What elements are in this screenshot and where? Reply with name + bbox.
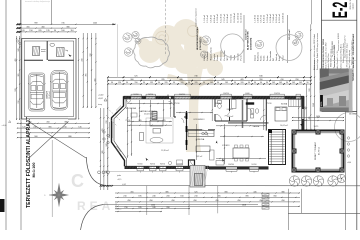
bay windows (116, 106, 121, 111)
svg-text:345 120 90: 345 120 90 (349, 114, 357, 116)
stairs corner mark (269, 130, 272, 133)
svg-text:4. 8.6 m2: 4. 8.6 m2 (214, 15, 216, 23)
black wardrobe bar (246, 102, 254, 104)
svg-text:120: 120 (22, 126, 25, 128)
kitchen counter (188, 131, 214, 137)
plot line right top (310, 0, 312, 24)
svg-text:(OSSZESEN): (OSSZESEN) (250, 37, 252, 50)
svg-text:390: 390 (245, 196, 248, 198)
door swing arcs (178, 117, 184, 123)
top dim extra labels (111, 82, 309, 84)
interior wall hall-living (173, 99, 175, 117)
between garage and house dim chains (82, 33, 84, 108)
svg-text:240: 240 (106, 144, 108, 147)
terrace right ticks (347, 137, 349, 139)
svg-text:Lepcso: Lepcso (254, 55, 256, 61)
svg-text:tervezett utcakep helyszinrajz: tervezett utcakep helyszinrajz (25, 0, 50, 3)
interior wall x247 (246, 99, 248, 121)
svg-text:-0,02: -0,02 (122, 184, 126, 186)
svg-text:rajzszam: rajzszam (353, 2, 355, 9)
bottom wall step (189, 160, 195, 166)
corner circles garage (16, 40, 18, 42)
covered terrace (293, 131, 344, 172)
street top edge (105, 185, 360, 187)
svg-text:120: 120 (21, 30, 24, 32)
svg-text:200: 200 (166, 196, 169, 198)
svg-text:7. 14.3 m2: 7. 14.3 m2 (273, 14, 275, 23)
interior wall y129 right rooms (228, 122, 269, 124)
house top connector (117, 24, 119, 77)
svg-text:110: 110 (70, 30, 73, 32)
svg-text:6. 12.0 m2: 6. 12.0 m2 (221, 14, 223, 23)
schedule 1 divider (243, 15, 245, 63)
driveway diagonal 1 (29, 122, 87, 159)
svg-text:KOZLEKEDO: KOZLEKEDO (194, 119, 206, 121)
svg-text:90: 90 (234, 82, 236, 84)
svg-text:2019. 05. 10.: 2019. 05. 10. (350, 0, 352, 10)
svg-text:365: 365 (86, 74, 88, 77)
svg-text:345: 345 (221, 79, 224, 81)
svg-text:385: 385 (165, 191, 168, 193)
washing machine ellipse (50, 43, 55, 46)
svg-text:450: 450 (215, 200, 218, 202)
svg-text:150: 150 (135, 82, 138, 84)
svg-text:390: 390 (259, 79, 262, 81)
svg-text:210: 210 (194, 196, 197, 198)
svg-text:-0,02: -0,02 (98, 98, 104, 100)
right dim chains (306, 84, 308, 130)
svg-text:Szoba: Szoba (264, 55, 266, 61)
trees under terrace (289, 176, 299, 186)
svg-text:185: 185 (138, 207, 141, 209)
bath tub (232, 100, 237, 109)
wc-bath partition wall (229, 99, 231, 111)
svg-text:1140: 1140 (313, 103, 315, 107)
svg-text:+0,00: +0,00 (98, 95, 104, 97)
street lower edge (103, 204, 258, 206)
svg-text:90: 90 (286, 82, 288, 84)
garage outer wall (22, 39, 76, 120)
svg-text:90: 90 (173, 82, 175, 84)
svg-text:ETKEZO: ETKEZO (222, 145, 230, 147)
svg-text:90: 90 (203, 82, 205, 84)
svg-text:120: 120 (181, 82, 184, 84)
svg-text:1. 3.5 m2: 1. 3.5 m2 (204, 15, 206, 23)
svg-text:4,60 m2: 4,60 m2 (227, 116, 234, 118)
svg-text:12,45 m2: 12,45 m2 (161, 150, 169, 152)
svg-text:160: 160 (180, 196, 183, 198)
svg-text:90/150: 90/150 (148, 94, 153, 96)
svg-text:9. 17.1 m2: 9. 17.1 m2 (231, 14, 233, 23)
svg-text:405: 405 (240, 79, 243, 81)
svg-text:120: 120 (241, 82, 244, 84)
svg-text:90: 90 (254, 82, 256, 84)
tree outline over schedule 2 (276, 35, 302, 61)
black margin block (0, 199, 5, 212)
svg-text:4. 8.6 m2: 4. 8.6 m2 (264, 15, 266, 23)
svg-text:60/60: 60/60 (245, 93, 249, 95)
svg-text:Furdo: Furdo (240, 55, 243, 60)
svg-text:410: 410 (280, 79, 283, 81)
terrace columns (292, 130, 296, 134)
bush near schedule 2 (255, 40, 263, 48)
svg-text:450: 450 (281, 200, 284, 202)
bush near schedule 1 (201, 36, 210, 45)
svg-text:390: 390 (224, 191, 227, 193)
interior door openings white (176, 116, 184, 118)
svg-text:Gepesz tervezo: Example Pal: Gepesz tervezo: Example Pal (344, 35, 347, 58)
svg-text:Furdoszoba: Furdoszoba (269, 50, 272, 61)
svg-text:450: 450 (127, 200, 130, 202)
bush cluster top (123, 33, 132, 42)
svg-text:75/210: 75/210 (266, 103, 271, 105)
svg-text:10. 20.0 m2: 10. 20.0 m2 (282, 13, 284, 23)
svg-text:90: 90 (217, 82, 219, 84)
svg-text:185: 185 (138, 196, 141, 198)
bottom dimension rows (115, 192, 300, 194)
fireplace hatched block (152, 112, 157, 120)
portico circles row (98, 171, 101, 174)
svg-text:210: 210 (123, 196, 126, 198)
svg-text:Aláíró: tervezo aláírása hitel: Aláíró: tervezo aláírása hiteles 2019 Si… (313, 34, 316, 70)
svg-text:460: 460 (41, 26, 44, 28)
svg-text:450: 450 (171, 200, 174, 202)
svg-text:445: 445 (253, 191, 256, 193)
svg-text:5. 10.5 m2: 5. 10.5 m2 (267, 14, 269, 23)
svg-text:105: 105 (299, 82, 302, 84)
house bottom sill ticks extra (139, 171, 141, 172)
svg-text:2. 5.2 m2: 2. 5.2 m2 (207, 15, 209, 23)
dim line end clusters (16, 23, 21, 25)
svg-text:210/150: 210/150 (274, 93, 280, 95)
svg-text:740: 740 (194, 76, 197, 78)
svg-text:240: 240 (152, 207, 155, 209)
svg-text:htg: htg (66, 49, 69, 52)
svg-text:ALAPTERULETEK: ALAPTERULETEK (247, 31, 250, 50)
svg-text:240: 240 (33, 126, 36, 128)
svg-text:Nappali+etkezo: Nappali+etkezo (210, 47, 213, 60)
svg-text:200: 200 (166, 207, 169, 209)
right page border line (356, 0, 358, 230)
garage right dim chains (78, 38, 80, 119)
svg-text:60/180: 60/180 (247, 99, 252, 101)
stacked marks legend (262, 193, 269, 195)
svg-text:Kamarai szam: 14-0635: Kamarai szam: 14-0635 (337, 33, 340, 51)
room labels (139, 103, 288, 153)
plot boundary line left (20, 0, 22, 230)
svg-text:45,79 m2: 45,79 m2 (319, 147, 321, 155)
below garage dim lines (17, 122, 90, 124)
axis dashed line (164, 0, 166, 56)
svg-text:450: 450 (237, 200, 240, 202)
svg-text:150: 150 (29, 30, 32, 32)
svg-text:360: 360 (130, 79, 133, 81)
svg-text:7. 13.7 m2: 7. 13.7 m2 (224, 14, 226, 23)
garage left dim chains (16, 36, 18, 120)
svg-text:90: 90 (111, 82, 113, 84)
svg-text:120: 120 (118, 82, 121, 84)
svg-text:terep: terep (98, 103, 102, 106)
svg-text:745: 745 (61, 23, 64, 25)
svg-text:145: 145 (78, 126, 81, 128)
svg-text:135: 135 (150, 82, 153, 84)
svg-text:tarolo: tarolo (41, 50, 46, 53)
car 2 (50, 71, 69, 111)
svg-text:Szoba: Szoba (261, 55, 263, 61)
house top wall (124, 95, 305, 97)
garage door opening (27, 116, 68, 119)
svg-text:Konyha: Konyha (214, 53, 216, 60)
svg-text:9. 18.1 m2: 9. 18.1 m2 (279, 14, 281, 23)
svg-text:380: 380 (66, 26, 69, 28)
more room labels (126, 107, 288, 158)
living room furniture (150, 121, 163, 127)
stair wall with black bits (186, 111, 188, 150)
svg-text:345: 345 (305, 107, 307, 110)
beige tree logo watermark (138, 19, 224, 152)
svg-text:525: 525 (134, 76, 137, 78)
driveway kerb arc upper (86, 157, 105, 186)
street side texts (116, 174, 126, 186)
title block frame (321, 0, 323, 112)
bedroom closet (289, 100, 302, 107)
svg-text:105: 105 (272, 82, 275, 84)
bedroom bed (275, 107, 287, 121)
svg-text:120: 120 (195, 82, 198, 84)
svg-text:+-0,00: +-0,00 (2, 125, 7, 127)
svg-text:2. 4.8 m2: 2. 4.8 m2 (258, 15, 260, 23)
svg-text:440: 440 (179, 79, 182, 81)
svg-text:Szoba: Szoba (267, 55, 269, 61)
svg-text:+0,15: +0,15 (117, 179, 121, 181)
svg-text:90: 90 (248, 82, 250, 84)
interior tiny dim texts (125, 93, 280, 166)
svg-text:969: 969 (34, 23, 37, 25)
bushes top right (295, 32, 303, 40)
tree outline over schedule 1 (221, 34, 245, 58)
svg-text:450: 450 (193, 200, 196, 202)
svg-text:1420: 1420 (316, 116, 320, 118)
svg-text:455: 455 (94, 79, 96, 82)
fence line y171 (105, 170, 190, 172)
svg-text:240: 240 (152, 196, 155, 198)
driveway centre line (51, 140, 53, 217)
svg-text:90/150: 90/150 (150, 164, 155, 166)
top neighbour outline (20, 0, 22, 24)
title text rows (322, 33, 355, 85)
svg-text:8. 16.2 m2: 8. 16.2 m2 (276, 14, 278, 23)
title block photo (320, 69, 353, 112)
svg-text:160: 160 (61, 30, 64, 32)
svg-text:7,87 m2: 7,87 m2 (196, 156, 203, 158)
dining table set (233, 148, 249, 158)
svg-text:240: 240 (82, 59, 84, 62)
svg-text:75/210: 75/210 (125, 120, 130, 122)
svg-text:105: 105 (292, 82, 295, 84)
wall hatch marks top (124, 97, 303, 169)
svg-text:M=1:100: M=1:100 (32, 162, 36, 177)
svg-text:150/150: 150/150 (223, 93, 229, 95)
svg-text:10. 18.8 m2: 10. 18.8 m2 (234, 13, 236, 23)
room schedule 1 columns (203, 13, 243, 61)
interior wall x215 (214, 99, 216, 121)
svg-text:520: 520 (309, 89, 311, 92)
svg-text:1245: 1245 (93, 23, 97, 25)
svg-text:meglevo fa megmarad: meglevo fa megmarad (195, 8, 198, 27)
roof overhang dashed lines (107, 108, 121, 121)
kitchen sink (202, 132, 205, 135)
svg-text:240/150: 240/150 (179, 94, 185, 96)
svg-text:450: 450 (149, 200, 152, 202)
bottom extra dim rows (115, 208, 190, 210)
top dim band emphasis ticks (107, 76, 312, 78)
terrace top dims (292, 117, 344, 119)
svg-text:11. 20.5 m2: 11. 20.5 m2 (237, 13, 239, 23)
svg-text:12. 22.2 m2: 12. 22.2 m2 (241, 13, 243, 23)
carpet (146, 118, 173, 143)
car 1 (28, 73, 46, 111)
top dimension lines (17, 23, 116, 25)
svg-text:FURDO: FURDO (227, 109, 234, 111)
svg-text:Elektromos tervezo: Minta Gabo: Elektromos tervezo: Minta Gabor (350, 40, 353, 65)
entry arrows (146, 158, 149, 161)
svg-text:Kozlekedo: Kozlekedo (207, 52, 209, 61)
svg-text:90: 90 (54, 30, 56, 32)
svg-text:365: 365 (18, 74, 20, 77)
garage internal partition (24, 59, 43, 61)
svg-text:630: 630 (259, 76, 262, 78)
svg-text:90: 90 (266, 82, 268, 84)
svg-text:90/150: 90/150 (160, 164, 165, 166)
svg-text:455: 455 (26, 26, 29, 28)
svg-text:455: 455 (15, 59, 17, 62)
svg-text:210: 210 (106, 121, 108, 124)
room schedule 2 columns (254, 13, 284, 61)
svg-text:210: 210 (18, 101, 20, 104)
svg-text:Kozlekedo: Kozlekedo (258, 52, 260, 61)
svg-text:HELYISEGKIMUTATAS: HELYISEGKIMUTATAS (196, 27, 199, 50)
top wall window sills (131, 93, 142, 95)
svg-text:E-2: E-2 (328, 2, 352, 18)
svg-text:140/240: 140/240 (176, 164, 182, 166)
right plot verticals (230, 111, 345, 113)
interior wall h1 (174, 116, 187, 118)
svg-text:960: 960 (34, 136, 37, 138)
big tree outline right (335, 113, 360, 142)
entrance porch hatched (190, 166, 205, 188)
left page edge line (5, 0, 7, 230)
street line right lower (287, 189, 289, 230)
svg-text:C: C (71, 171, 84, 191)
bottom wall window sills (137, 170, 144, 172)
living interior chains (139, 100, 141, 121)
svg-text:90/210: 90/210 (215, 103, 220, 105)
svg-text:90: 90 (188, 82, 190, 84)
svg-text:455: 455 (130, 191, 133, 193)
svg-text:5. 10.3 m2: 5. 10.3 m2 (217, 14, 219, 23)
svg-text:520: 520 (15, 89, 17, 92)
interior room dims 2 (131, 108, 133, 156)
svg-text:Kamra: Kamra (216, 54, 219, 61)
svg-text:90/150: 90/150 (137, 164, 142, 166)
svg-text:210: 210 (124, 207, 127, 209)
svg-text:210: 210 (63, 126, 66, 128)
house bottom wall dining (209, 166, 269, 168)
svg-text:Tel: +36 30 000 0000: Tel: +36 30 000 0000 (332, 41, 334, 57)
svg-text:FEDETT TERASZ: FEDETT TERASZ (314, 142, 317, 160)
svg-text:105: 105 (279, 82, 282, 84)
svg-text:1. 2.9 m2: 1. 2.9 m2 (254, 15, 256, 23)
svg-text:385: 385 (102, 151, 104, 154)
house right wall (301, 96, 303, 130)
svg-text:jarda: jarda (116, 174, 121, 177)
svg-text:365: 365 (48, 126, 51, 128)
svg-text:210: 210 (90, 54, 92, 57)
garage entry arrow (68, 53, 72, 57)
svg-text:165: 165 (225, 82, 228, 84)
svg-text:Pecsét helye: Siofok 2019 maju: Pecsét helye: Siofok 2019 majus ho terve… (316, 33, 319, 70)
big tree outline (134, 37, 170, 68)
svg-text:3. 6.9 m2: 3. 6.9 m2 (211, 15, 213, 23)
svg-text:120: 120 (165, 82, 168, 84)
svg-text:150/240: 150/240 (228, 164, 234, 166)
svg-text:Gardrob: Gardrob (275, 54, 278, 61)
driveway kerb arc lower (81, 205, 104, 231)
house bottom wall left (125, 165, 210, 167)
svg-text:TERVEZETT FÖLDSZINTI ALAPRAJZ: TERVEZETT FÖLDSZINTI ALAPRAJZ (25, 116, 32, 208)
svg-text:880: 880 (68, 136, 71, 138)
svg-text:450: 450 (46, 122, 49, 124)
svg-text:160: 160 (106, 171, 108, 174)
svg-text:290: 290 (295, 79, 298, 81)
svg-text:105: 105 (210, 82, 213, 84)
title inner divider (322, 60, 357, 62)
svg-text:90: 90 (307, 82, 309, 84)
house left bay (112, 96, 125, 166)
gray letters watermark (71, 171, 126, 213)
svg-text:350: 350 (273, 196, 276, 198)
svg-text:90: 90 (126, 82, 128, 84)
left house dim chains (99, 108, 101, 190)
storage radiator 2 (57, 48, 65, 57)
bottom verticals (146, 186, 148, 215)
plants and extras (127, 99, 131, 103)
svg-text:90: 90 (143, 82, 145, 84)
svg-text:3. 6.7 m2: 3. 6.7 m2 (261, 15, 263, 23)
terrace stairs strip (269, 130, 286, 165)
svg-text:14,02 m2: 14,02 m2 (280, 125, 288, 127)
compass rose (49, 183, 69, 208)
house top dimension lines (108, 76, 312, 78)
kitchen wall (187, 129, 203, 131)
svg-text:305: 305 (138, 120, 141, 122)
bush below schedule 1 (201, 51, 208, 58)
svg-text:SZOBA: SZOBA (281, 103, 288, 106)
svg-text:75/210: 75/210 (174, 103, 179, 105)
storage radiator 1 (33, 47, 40, 56)
interior wall y121 (215, 120, 247, 122)
svg-text:90/150: 90/150 (251, 164, 256, 166)
svg-text:285: 285 (161, 79, 164, 81)
hatched wall x242 (242, 100, 244, 128)
svg-text:270: 270 (162, 120, 165, 122)
svg-text:90: 90 (158, 82, 160, 84)
svg-text:32,40 m2: 32,40 m2 (49, 91, 51, 99)
schedule 2 divider (287, 15, 289, 63)
svg-text:8. 15.4 m2: 8. 15.4 m2 (227, 14, 229, 23)
svg-text:6. 12.4 m2: 6. 12.4 m2 (270, 14, 272, 23)
svg-text:205: 205 (38, 30, 41, 32)
